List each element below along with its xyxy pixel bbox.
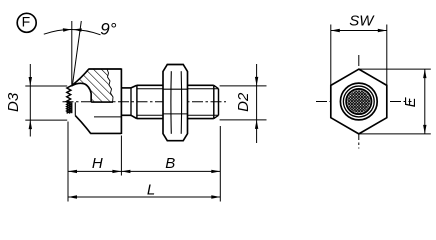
dim L line: [68, 196, 220, 198]
dim E line: [424, 69, 426, 134]
dim D2 line: [256, 64, 258, 143]
thread crest bottom: [137, 118, 163, 120]
dim E extension bottom: [359, 133, 431, 135]
svg-text:F: F: [22, 14, 31, 30]
angle arc arrow left: [63, 28, 71, 31]
knurled face: [348, 90, 371, 113]
dim B line: [121, 170, 220, 172]
serrated face lower crosshatch: [67, 102, 71, 113]
break line jagged: [107, 69, 113, 102]
dim D2 extension top: [220, 85, 267, 87]
dim D3 line: [29, 64, 31, 137]
serrated face lower edge shade: [70, 102, 72, 113]
neck chamfer edge: [130, 88, 132, 115]
hex nut side view outline: [163, 65, 188, 141]
dim E extension top: [359, 68, 431, 70]
dim SW extension right: [386, 25, 388, 86]
svg-text:SW: SW: [349, 13, 375, 30]
middle circle: [343, 86, 374, 117]
hex facet line bottom: [94, 116, 121, 118]
thread end slant top: [214, 85, 219, 88]
cone bottom slant edge: [75, 116, 90, 134]
angle arc arrow right: [73, 28, 81, 31]
nut chamfer arc right: [180, 71, 182, 134]
dim SW extension left: [330, 25, 332, 86]
extension line mid (H/B): [120, 136, 122, 176]
svg-text:9°: 9°: [100, 19, 116, 38]
right view centerline vertical: [358, 55, 360, 149]
thread start edge: [136, 85, 138, 118]
head right edge: [120, 68, 122, 134]
thread root bottom: [137, 114, 219, 116]
serrated face upper zigzag: [67, 86, 72, 103]
svg-text:H: H: [92, 155, 103, 172]
thread end face: [218, 89, 220, 116]
dim D2 extension bottom: [220, 119, 267, 121]
extension line left (L/H): [67, 122, 69, 202]
neck top edge: [121, 87, 131, 89]
nut facet line lower: [163, 113, 188, 115]
insert rim edge: [71, 102, 73, 113]
chamfer slant top: [131, 85, 137, 88]
inner ring: [346, 89, 371, 114]
angle dim reference line vertical: [71, 21, 73, 85]
dim H line: [68, 170, 121, 172]
thread end slant bottom: [214, 115, 219, 118]
dim D3 extension top: [25, 85, 67, 87]
cone top slant edge: [72, 69, 89, 86]
dim D3 extension bottom: [25, 119, 67, 121]
section edge on axis: [91, 101, 113, 103]
neck bottom edge: [121, 114, 131, 116]
head top edge: [89, 68, 122, 70]
chamfer slant bottom: [131, 115, 137, 118]
dim SW line: [331, 30, 387, 32]
thread root top: [137, 88, 219, 90]
form label F circle: [17, 13, 36, 32]
outer circle ball face: [340, 83, 377, 120]
svg-text:B: B: [165, 155, 175, 172]
hexagon head end view: [331, 69, 387, 134]
ball dome outline: [71, 83, 91, 101]
svg-text:D3: D3: [5, 92, 22, 112]
hatch section (broken-out): [71, 69, 113, 102]
angle dim arc: [44, 29, 101, 34]
nut chamfer arc left: [170, 71, 172, 134]
centerline left view: [63, 101, 227, 103]
extension line right (B/L): [219, 126, 221, 202]
right view centerline horizontal: [316, 101, 412, 103]
nut facet line upper: [163, 88, 188, 90]
thread crest top: [137, 84, 163, 86]
head bottom edge: [90, 132, 121, 134]
svg-text:L: L: [147, 181, 155, 198]
thread end chamfer edge: [213, 85, 215, 118]
angle dim slant line: [72, 21, 81, 85]
svg-text:E: E: [402, 96, 419, 107]
svg-text:D2: D2: [235, 92, 252, 112]
cone front rim edge: [74, 102, 76, 115]
